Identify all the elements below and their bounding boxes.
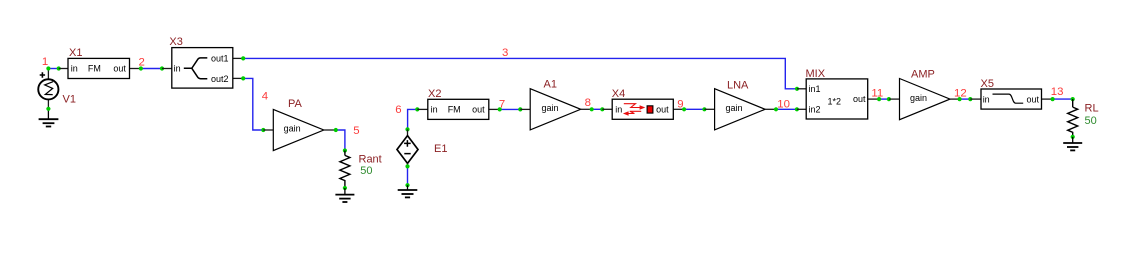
svg-text:in: in	[615, 105, 622, 115]
junction dot X1 in	[57, 66, 61, 70]
svg-text:in: in	[431, 105, 438, 115]
svg-text:PA: PA	[288, 98, 303, 110]
junction dot V1 top	[46, 66, 50, 70]
wire node 9	[684, 108, 704, 110]
junction dot X3 in	[160, 66, 164, 70]
junction dot V1 bottom	[46, 107, 50, 111]
svg-text:10: 10	[777, 99, 790, 111]
junction dot MIX in1	[795, 87, 799, 91]
svg-text:A1: A1	[544, 79, 557, 91]
svg-text:in: in	[174, 64, 181, 74]
mixer block MIX	[797, 79, 879, 119]
junction dot X5 in	[968, 97, 972, 101]
svg-text:X4: X4	[612, 88, 625, 100]
junction dot Rant bottom	[343, 186, 347, 190]
junction dot AMP out	[958, 97, 962, 101]
wire node 11	[879, 98, 889, 100]
junction dot MIX out	[877, 97, 881, 101]
svg-text:13: 13	[1051, 86, 1064, 98]
svg-text:E1: E1	[434, 143, 447, 155]
svg-text:FM: FM	[448, 105, 461, 115]
svg-text:out: out	[472, 105, 485, 115]
svg-text:out2: out2	[211, 74, 229, 84]
junction dot MIX in2	[795, 107, 799, 111]
junction dot LNA out	[774, 107, 778, 111]
svg-text:X5: X5	[981, 78, 994, 90]
svg-text:X1: X1	[69, 47, 82, 59]
junction dot E1 bottom	[405, 164, 409, 168]
svg-text:in1: in1	[809, 84, 821, 94]
svg-text:X2: X2	[428, 88, 441, 100]
wire node 7	[500, 108, 521, 110]
voltage source V1	[38, 69, 58, 109]
splitter block X3	[162, 48, 243, 89]
X4 arrows icon	[623, 104, 645, 116]
svg-text:1*2: 1*2	[828, 96, 842, 106]
amplifier LNA	[704, 89, 776, 130]
svg-text:in: in	[983, 94, 990, 104]
svg-text:4: 4	[262, 90, 268, 102]
svg-text:1: 1	[42, 56, 48, 68]
FM source block X2	[417, 99, 499, 119]
wire E1 to ground	[407, 166, 409, 185]
svg-text:11: 11	[871, 87, 883, 99]
svg-text:LNA: LNA	[727, 79, 749, 91]
junction dot RL bottom	[1071, 135, 1075, 139]
wire node 5	[336, 130, 345, 151]
channel block X4	[602, 99, 684, 119]
svg-text:gain: gain	[542, 103, 559, 113]
wire node 10	[776, 108, 797, 110]
junction dot X5 out	[1051, 97, 1055, 101]
ground (below V1)	[39, 109, 59, 127]
svg-text:gain: gain	[910, 93, 927, 103]
svg-text:gain: gain	[284, 123, 301, 133]
wire node 2	[141, 68, 162, 70]
svg-text:V1: V1	[63, 93, 76, 105]
junction dot RL top	[1071, 97, 1075, 101]
junction dot X2 out	[498, 107, 502, 111]
amplifier A1	[520, 89, 591, 130]
filter block X5	[970, 89, 1052, 109]
junction dot E1 ground	[405, 183, 409, 187]
junction dot PA in	[261, 128, 265, 132]
amplifier AMP	[889, 79, 960, 120]
wire node 12	[960, 98, 971, 100]
junction dot A1 in	[518, 107, 522, 111]
svg-text:out: out	[113, 64, 126, 74]
wire node 1	[48, 68, 58, 70]
svg-text:in: in	[71, 64, 78, 74]
ground (below RL)	[1063, 137, 1082, 151]
junction dot E1 top	[405, 127, 409, 131]
wire net 4 (out2 to PA)	[243, 78, 263, 130]
wire net 3 (out1 to MIX in1)	[243, 58, 797, 88]
resistor Rant	[340, 151, 350, 189]
svg-text:FM: FM	[88, 64, 101, 74]
ground (below Rant)	[335, 188, 354, 202]
svg-text:6: 6	[395, 104, 401, 116]
junction dot LNA in	[702, 107, 706, 111]
wire node 8	[592, 108, 603, 110]
svg-text:50: 50	[1085, 115, 1097, 127]
svg-text:in2: in2	[809, 104, 821, 114]
junction dot AMP in	[887, 97, 891, 101]
svg-text:RL: RL	[1085, 103, 1099, 115]
resistor RL	[1068, 99, 1078, 137]
junction dot X4 out	[682, 107, 686, 111]
svg-text:out1: out1	[211, 54, 229, 64]
junction dot Rant top	[343, 148, 347, 152]
junction dot X4 in	[600, 107, 604, 111]
svg-text:MIX: MIX	[806, 68, 826, 80]
svg-text:out: out	[656, 105, 669, 115]
svg-text:3: 3	[502, 47, 508, 59]
svg-text:out: out	[853, 94, 866, 104]
svg-text:X3: X3	[169, 36, 182, 48]
controlled source E1	[397, 129, 418, 166]
junction dot X3 out2	[241, 76, 245, 80]
svg-text:gain: gain	[726, 103, 743, 113]
svg-text:50: 50	[360, 165, 372, 177]
junction dot X2 in	[415, 107, 419, 111]
svg-text:5: 5	[353, 125, 359, 137]
junction dot PA out	[334, 128, 338, 132]
svg-text:out: out	[1027, 94, 1040, 104]
junction dot A1 out	[590, 107, 594, 111]
junction dot X1 out	[139, 66, 143, 70]
X4 red square icon	[647, 106, 653, 113]
svg-text:8: 8	[585, 97, 591, 109]
FM source block X1	[59, 58, 141, 78]
svg-text:AMP: AMP	[911, 69, 935, 81]
amplifier PA	[263, 109, 336, 150]
wire node 13	[1053, 98, 1073, 100]
svg-text:Rant: Rant	[359, 153, 382, 165]
wire node 6	[408, 109, 418, 129]
ground (below E1)	[398, 185, 418, 197]
junction dot X3 out1	[241, 56, 245, 60]
